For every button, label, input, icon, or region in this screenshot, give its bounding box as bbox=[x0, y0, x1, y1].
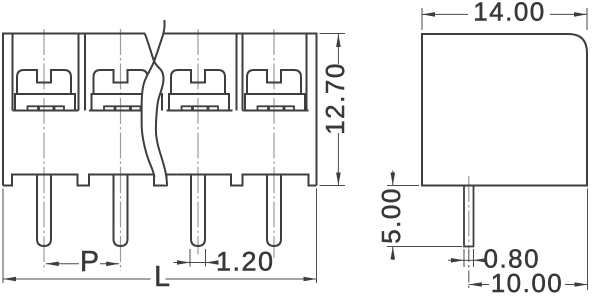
dimension 14.00 bbox=[421, 8, 423, 30]
centerline side pin bbox=[468, 176, 470, 252]
wall right inner bbox=[306, 34, 308, 111]
contact teeth 2 bbox=[104, 106, 115, 110]
dimension 1.20 bbox=[189, 249, 191, 267]
terminal plate 3 bbox=[167, 110, 233, 112]
terminal clamp 3 bbox=[171, 70, 225, 94]
centerline pin 3 bbox=[197, 29, 199, 255]
dimension P bbox=[46, 263, 79, 265]
dimension 0.80 bbox=[463, 249, 465, 267]
svg-text:L: L bbox=[154, 261, 170, 293]
dimension L bbox=[2, 189, 4, 284]
side view body outline bbox=[422, 34, 587, 186]
svg-text:5.00: 5.00 bbox=[376, 187, 406, 244]
barrier 1 right bbox=[84, 34, 86, 111]
svg-text:12.70: 12.70 bbox=[320, 62, 350, 135]
break line left strand bbox=[142, 20, 165, 177]
centerline pin 1 bbox=[43, 29, 45, 271]
front view bottom profile with mounting tabs bbox=[3, 175, 176, 186]
svg-text:14.00: 14.00 bbox=[473, 0, 546, 27]
svg-text:10.00: 10.00 bbox=[491, 268, 564, 297]
pin 2 front view bbox=[114, 175, 128, 247]
break ribbon mask bbox=[142, 20, 167, 186]
terminal clamp 1 bbox=[17, 70, 71, 94]
pin 1 front view bbox=[37, 175, 51, 247]
barrier 1 left bbox=[78, 34, 80, 111]
front view body outline bbox=[3, 34, 145, 186]
centerline pin 4 bbox=[273, 29, 275, 258]
svg-text:1.20: 1.20 bbox=[216, 246, 275, 276]
contact teeth 3 bbox=[182, 106, 193, 110]
centerline pin 2 bbox=[120, 29, 122, 271]
barrier 2 right bbox=[161, 93, 163, 111]
dimension 5.00 bbox=[387, 185, 419, 187]
dimension 12.70 bbox=[320, 33, 346, 35]
pin 3 front view bbox=[191, 175, 205, 247]
dimension 10.00 bbox=[468, 250, 470, 289]
contact teeth 1 bbox=[28, 106, 39, 110]
barrier 3 left bbox=[236, 34, 238, 111]
barrier 3 right bbox=[242, 34, 244, 111]
terminal plate 2 bbox=[89, 110, 155, 112]
terminal clamp 4 bbox=[247, 70, 301, 94]
wall left inner bbox=[12, 34, 14, 111]
pin 4 front view bbox=[267, 175, 281, 247]
terminal plate 1 bbox=[13, 110, 79, 112]
break line right strand bbox=[145, 34, 167, 186]
svg-text:P: P bbox=[80, 246, 99, 278]
contact teeth 4 bbox=[258, 106, 269, 110]
terminal plate 4 bbox=[243, 110, 309, 112]
terminal clamp 2 bbox=[94, 70, 148, 94]
side view pin bbox=[464, 186, 474, 247]
barrier 2 left bbox=[153, 34, 155, 111]
